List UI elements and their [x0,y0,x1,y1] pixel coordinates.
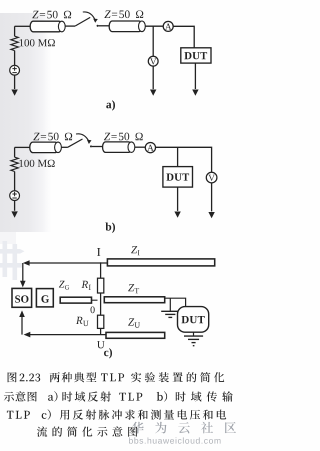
label Z_I [131,246,137,253]
ground arrow below voltmeter (a) [150,90,156,96]
wire resistor to pulse source (b) [14,172,16,191]
top line to SO with left arrowhead [27,262,108,264]
vertical bus through R_I, node 0, R_U [100,262,102,334]
label Z = 50 Ohm (b left) [33,133,39,141]
wire source branch vertical (b) [14,147,16,157]
junction down to DUT (b) [177,147,179,166]
resistor R_U box [98,315,104,328]
ground symbol (mid) [161,311,179,317]
wire source to ground (a) [14,75,16,89]
transmission line Z=50 ohm (right, a) [109,21,142,32]
wire ammeter to corner and down to DUT (a) [173,26,194,48]
DUT box (a) [181,48,211,63]
ground arrow below DUT (b) [174,212,180,218]
vertical into SO top with down arrowhead [22,263,24,281]
label I [97,248,100,256]
wire junction down to voltmeter (a) [152,26,154,56]
wire switch to TL2 (b) [92,146,103,148]
label Z_G [59,281,65,288]
wire DUT to ground (c) [193,332,195,336]
label a) [106,100,115,110]
pulse source +/- (a) [10,65,20,75]
wire Z_G bar to node 0 [92,299,98,301]
switch fixed contact dot (a) [97,25,99,27]
watermark url [129,437,220,443]
wire Z_T to DUT corner [165,298,186,306]
label 100 MOhm (b) [19,160,54,167]
transmission line Z=50 ohm (right, b) [103,142,132,153]
ground stub from Z_T wire [169,298,171,311]
voltmeter V (b) [206,172,217,183]
label Z = 50 Ohm (b right) [104,133,110,141]
wire from source node to TL1 [15,25,31,27]
wire source to ground (b) [14,201,16,211]
wire TL1 to switch [65,25,75,27]
transmission line Z_T bar [104,297,164,303]
generator feed bar Z_G [60,297,91,303]
ammeter A (a) [163,21,173,31]
ammeter A (b) [145,143,155,153]
circuit c: Barth pulse summing arrangement [12,246,215,358]
resistor 100 MOhm (b) [11,157,18,171]
label U [97,341,105,348]
wire resistor to pulse source (a) [14,51,16,66]
pulse source +/- (b) [10,191,20,201]
resistor 100 MOhm (a) [11,36,18,50]
label c) [104,348,112,358]
circuit a: time-domain reflection TLP [10,10,211,110]
label R_U [76,317,83,324]
switch S (a) [75,17,90,26]
label Z = 50 Ohm (a left) [32,11,38,18]
node 0 label [91,306,95,313]
ground arrow below source (b) [11,211,17,217]
wire TL2 to ammeter (b) [135,146,146,148]
wire switch to TL2 (a) [99,25,110,27]
switch fixed contact dot (b) [90,145,92,147]
watermark text huawei cloud community [132,422,236,434]
wire source node to TL1 (b) [15,146,30,148]
DUT rounded box (c) [178,307,209,333]
vertical into SO bottom with up arrowhead [21,317,23,335]
wire ammeter to right corner, down to voltmeter (b) [156,147,212,172]
bottom line from Z_U to SO with left arrowhead [27,334,107,336]
ground arrow below voltmeter (b) [208,212,214,218]
caption line 1 [8,372,17,382]
label Z_T [128,284,134,291]
wire voltmeter to ground (b) [211,183,213,212]
wire voltmeter to ground (a) [152,66,154,89]
switch S (b) [68,139,83,147]
circuit b: time-domain transmission TLP [10,133,217,233]
resistor R_I box [98,278,104,293]
transmission line Z=50 ohm (left, a) [30,21,62,32]
transmission line Z_U bar [106,332,165,338]
caption line 4 [37,426,137,436]
watermark glyph left [0,241,25,280]
transmission line Z=50 ohm (left, b) [30,142,58,153]
wire source branch vertical (a) [14,26,16,36]
voltmeter V (a) [148,56,158,66]
generator box G [36,289,53,307]
caption line 3 [7,411,30,419]
caption line 2 [4,391,37,401]
label R_I [81,281,88,288]
label Z_U [128,318,134,325]
wire DUT to ground (a) [194,63,196,89]
oscilloscope box SO [12,288,32,307]
label Z = 50 Ohm (a right) [104,11,110,19]
ground arrow below DUT (a) [192,90,198,96]
wire DUT to ground (b) [177,187,179,211]
ground symbol below DUT (c) [184,336,203,346]
label b) [105,223,115,233]
wire TL2 to ammeter (a) [145,25,163,27]
wire TL1 to switch (b) [61,146,68,148]
ground arrow below source (a) [11,90,17,96]
DUT box (b) [163,167,193,188]
label 100 MOhm (a) [20,39,55,46]
transmission line Z_I bar [107,259,214,266]
